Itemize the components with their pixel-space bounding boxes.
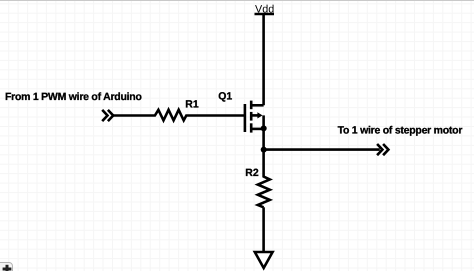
svg-text:R1: R1 bbox=[185, 99, 199, 111]
svg-text:Vdd: Vdd bbox=[255, 3, 274, 15]
svg-text:From 1 PWM wire of Arduino: From 1 PWM wire of Arduino bbox=[5, 91, 142, 103]
svg-text:R2: R2 bbox=[245, 167, 259, 179]
svg-text:To 1 wire of stepper motor: To 1 wire of stepper motor bbox=[338, 124, 463, 136]
svg-text:Q1: Q1 bbox=[218, 90, 232, 102]
